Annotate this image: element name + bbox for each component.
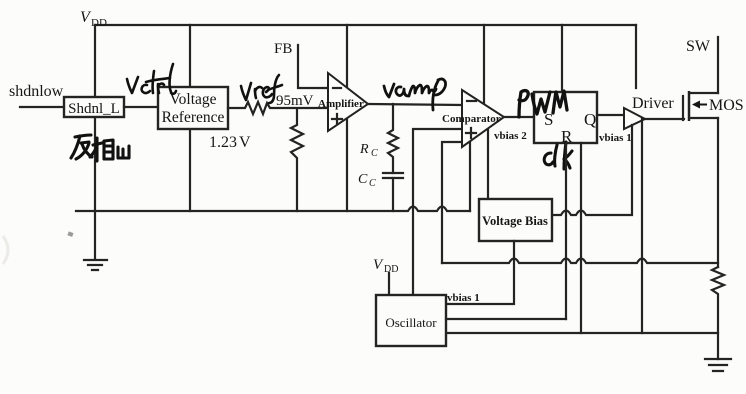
svg-text:R: R bbox=[359, 142, 369, 157]
svg-text:Amplifier: Amplifier bbox=[318, 98, 364, 110]
svg-text:vbias 2: vbias 2 bbox=[494, 130, 527, 142]
wire FB to amplifier inverting input bbox=[298, 45, 328, 88]
capacitor CC bbox=[383, 173, 403, 178]
svg-text:FB: FB bbox=[274, 41, 292, 57]
svg-text:vbias 1: vbias 1 bbox=[447, 292, 480, 304]
transistor MOS Q1 bbox=[682, 96, 684, 120]
wire VDD drop x=347 to amplifier bbox=[346, 25, 348, 88]
wire VDD drop x=484 to comparator bbox=[483, 25, 485, 103]
wire driver bias from voltage bias output bbox=[552, 125, 632, 215]
wire Voltage Reference ground x=190 bbox=[189, 129, 191, 211]
svg-text:Voltage Bias: Voltage Bias bbox=[482, 214, 548, 228]
svg-text:vbias 1: vbias 1 bbox=[599, 132, 632, 144]
wire VDD drop x=95 upper bbox=[94, 25, 96, 98]
op-amp U1 error Amplifier bbox=[328, 73, 368, 131]
annotation clk (handwritten) bbox=[544, 142, 572, 169]
annotation PWM (handwritten) bbox=[519, 91, 567, 117]
wire MOS source down right side bbox=[717, 118, 719, 267]
annotation 反相凹 (handwritten) bbox=[71, 135, 129, 161]
wire latch ground to bus3 bbox=[580, 143, 582, 333]
wire VDD drop x=95 lower to bus bbox=[94, 116, 96, 259]
wire ground bus (y=211) with hops bbox=[76, 207, 470, 212]
wire shdnlow input bbox=[20, 106, 64, 108]
svg-text:95mV: 95mV bbox=[276, 93, 314, 109]
annotation Vref (handwritten) bbox=[241, 75, 282, 103]
svg-text:shdnlow: shdnlow bbox=[9, 83, 64, 100]
node MOS label with arrow bbox=[698, 104, 707, 106]
svg-text:Oscillator: Oscillator bbox=[385, 315, 437, 330]
wire VDD drop x=562 to latch bbox=[561, 25, 563, 92]
wire bus3 (y=333) bbox=[446, 332, 718, 334]
svg-text:Q: Q bbox=[584, 110, 596, 129]
wire VDD rail drop to Driver bbox=[635, 25, 637, 88]
wire latch Q output to driver bbox=[597, 114, 624, 116]
wire amplifier ground x=347 bbox=[346, 119, 348, 211]
svg-text:C: C bbox=[358, 172, 368, 187]
wire comparator output PWM to latch S bbox=[504, 116, 534, 118]
block Oscillator U5 bbox=[376, 295, 446, 346]
resistor shunt at FB node bbox=[291, 109, 303, 211]
wire voltage bias output to oscillator (vbias1) bbox=[446, 241, 514, 304]
flip-flop SR latch U3 bbox=[534, 92, 597, 143]
svg-text:C: C bbox=[369, 178, 376, 189]
wire SW bbox=[717, 37, 719, 93]
VDD rail (top) bbox=[95, 24, 636, 26]
wire oscillator clk output bbox=[446, 318, 566, 320]
svg-text:V: V bbox=[373, 257, 384, 273]
wire driver output down to bus3 bbox=[641, 119, 643, 333]
scan smudge left edge bbox=[3, 236, 8, 264]
svg-text:DD: DD bbox=[384, 264, 398, 275]
wire VDD drop x=190 upper bbox=[189, 25, 191, 87]
comparator U2 bbox=[462, 90, 504, 147]
svg-text:Voltage: Voltage bbox=[169, 91, 216, 108]
svg-text:DD: DD bbox=[91, 17, 107, 29]
svg-text:C: C bbox=[371, 148, 378, 159]
svg-text:MOS: MOS bbox=[709, 97, 744, 114]
resistor RC bbox=[388, 104, 398, 173]
resistor Rref (95mV offset) bbox=[228, 102, 328, 114]
wire amplifier output vamp bbox=[368, 104, 462, 105]
svg-text:SW: SW bbox=[686, 38, 711, 55]
wire comparator ground bbox=[469, 142, 471, 211]
svg-text:Comparator: Comparator bbox=[442, 113, 501, 125]
svg-text:Shdnl_L: Shdnl_L bbox=[68, 101, 120, 117]
svg-text:Reference: Reference bbox=[162, 109, 225, 126]
svg-text:1.23V: 1.23V bbox=[209, 134, 251, 151]
wire comparator vbias2 feed bbox=[487, 129, 489, 199]
scan speckle bbox=[67, 231, 73, 236]
wire comparator sense input (from bus2) bbox=[442, 142, 462, 263]
wire VDD to oscillator bbox=[388, 273, 390, 295]
wire comparator + input (from oscillator ramp) bbox=[413, 129, 462, 295]
annotation vamp (handwritten) bbox=[384, 79, 446, 110]
annotation Vctrl (handwritten) bbox=[127, 64, 176, 94]
ground (right) bbox=[705, 359, 731, 371]
wire latch R input to clk line bbox=[565, 143, 567, 319]
wire Shdnl_L to Voltage Reference (node Vctrl) bbox=[124, 106, 158, 108]
svg-text:Driver: Driver bbox=[632, 95, 674, 112]
block Shdnl_L bbox=[64, 97, 124, 117]
wire bus2 current-sense (y=263) with hops bbox=[442, 259, 718, 264]
wire driver output to MOS gate bbox=[645, 118, 684, 120]
ground (left) bbox=[84, 260, 107, 270]
block Voltage Reference U-VR bbox=[158, 87, 228, 129]
block Voltage Bias U4 bbox=[479, 199, 552, 241]
resistor sense (right) bbox=[712, 267, 724, 359]
